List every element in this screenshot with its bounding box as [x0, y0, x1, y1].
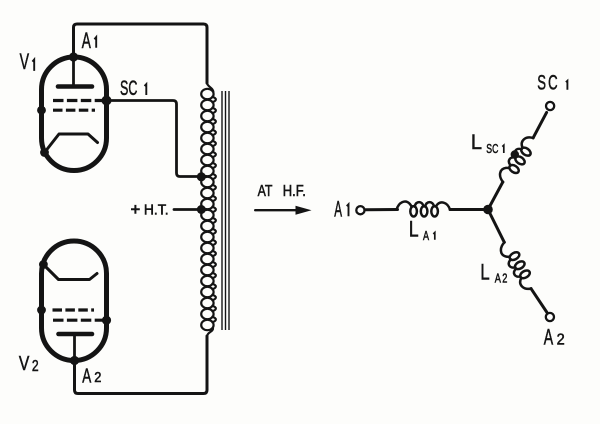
wire +H.T. to coil tap — [174, 208, 199, 211]
svg-text:SC: SC — [486, 142, 498, 156]
svg-text:AT: AT — [258, 182, 273, 200]
label L SC1 subscript 1 — [502, 145, 504, 153]
terminal A2 — [546, 313, 554, 321]
wire LSC1 to SC1 terminal — [533, 112, 547, 137]
coil tap dot SC1 — [197, 172, 206, 181]
V1 pin dot grid — [37, 106, 46, 115]
tube V1 envelope — [42, 57, 107, 171]
V2 pin dot A2 — [70, 356, 79, 365]
V1 anode lead — [72, 57, 75, 87]
svg-text:V: V — [19, 352, 30, 374]
V1 pin dot SC1 — [102, 96, 112, 106]
V2 pin dot grid — [37, 306, 46, 315]
svg-text:A: A — [544, 324, 554, 349]
transformer core — [222, 91, 229, 330]
V2 screen grid — [53, 319, 105, 322]
inductor LA1 — [397, 202, 451, 217]
svg-text:V: V — [20, 49, 30, 74]
inductor LSC1 — [496, 133, 539, 186]
V1 screen grid — [53, 99, 105, 102]
transformer primary coil loops — [201, 83, 216, 336]
arrow AT H.F. — [255, 209, 299, 211]
V1 anode plate — [58, 84, 92, 89]
wire A1 terminal to LA1 — [366, 208, 398, 211]
V1 cathode — [45, 134, 98, 153]
inductor LA2 — [498, 239, 538, 293]
label A1 top subscript 1 — [94, 37, 96, 48]
V2 pin dot screen — [102, 316, 111, 325]
V2 control grid — [53, 308, 95, 311]
label SC1 left subscript 1 — [145, 84, 147, 95]
svg-text:A: A — [82, 28, 92, 53]
V1 control grid — [53, 109, 95, 112]
wire A1 to coil top — [74, 24, 208, 83]
svg-text:A: A — [334, 197, 342, 222]
wire node to LA2 — [488, 210, 504, 243]
svg-text:2: 2 — [32, 357, 39, 375]
svg-text:2: 2 — [94, 369, 101, 385]
wire node to LSC1 — [488, 182, 503, 210]
V2 pin dot cathode — [39, 260, 48, 269]
V1 pin dot cathode — [40, 148, 49, 157]
wire LA1 to node — [450, 208, 485, 211]
svg-text:A: A — [82, 363, 91, 387]
svg-text:2: 2 — [557, 331, 565, 349]
label SC1 right subscript 1 — [566, 81, 568, 90]
svg-text:A2: A2 — [495, 272, 509, 286]
LSC1 dark loop blob — [511, 150, 519, 158]
svg-text:A: A — [423, 230, 430, 244]
terminal SC1 — [546, 102, 554, 110]
coil tap dot HT — [197, 205, 206, 214]
wire A2 to coil bottom — [75, 336, 208, 394]
tube V2 envelope — [42, 241, 107, 361]
svg-text:H.T.: H.T. — [144, 201, 169, 217]
V2 cathode — [43, 265, 97, 280]
V1 pin dot A1 — [69, 52, 78, 61]
svg-text:SC: SC — [537, 70, 560, 94]
label A1 right subscript 1 — [347, 204, 349, 216]
label L A1 subscript 1 — [433, 233, 435, 240]
terminal A1 — [356, 206, 364, 214]
svg-text:L: L — [409, 218, 419, 242]
svg-text:SC: SC — [120, 75, 137, 99]
star node — [483, 205, 493, 215]
label +H.T. plus sign — [131, 205, 140, 214]
svg-text:L: L — [480, 260, 489, 285]
V2 anode plate — [59, 332, 93, 337]
svg-text:H.F.: H.F. — [283, 183, 306, 200]
V2 anode lead — [73, 334, 76, 361]
wire LA2 to A2 terminal — [531, 289, 547, 313]
svg-text:L: L — [471, 131, 482, 155]
wire SC1 to coil tap — [107, 101, 202, 177]
label V1 subscript 1 — [32, 60, 34, 71]
